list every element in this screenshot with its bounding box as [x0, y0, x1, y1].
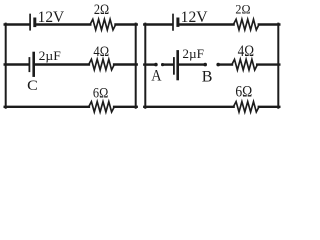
capacitor C 2uF left circuit: right plate	[32, 53, 35, 76]
capacitor 2uF right circuit: left plate	[173, 58, 175, 74]
battery 12V left circuit: long plate	[29, 15, 31, 30]
wire: left circuit top, battery to 2ohm resistor	[36, 23, 90, 25]
battery 12V left circuit: short thick plate	[33, 19, 36, 26]
resistor R 2ohm (left circuit top) zigzag	[90, 19, 116, 30]
wire: left circuit top wire, border to battery	[5, 23, 30, 25]
wire: right circuit, capacitor to node B dot	[179, 63, 205, 65]
battery 12V right circuit: short thick plate	[176, 19, 179, 25]
svg-text:2Ω: 2Ω	[235, 2, 250, 16]
wire: right circuit right border	[277, 24, 279, 108]
capacitor C 2uF left circuit: left plate	[28, 58, 30, 71]
svg-text:A: A	[151, 68, 162, 85]
wire: left circuit middle, capacitor to 4ohm resistor	[35, 63, 89, 65]
svg-text:B: B	[202, 69, 213, 86]
wire: left circuit middle wire, border to capacitor	[5, 63, 29, 65]
svg-text:6Ω: 6Ω	[93, 85, 109, 101]
battery 12V right circuit: long plate	[172, 15, 174, 30]
wire: right circuit top, battery to 2ohm resistor	[179, 23, 234, 25]
svg-text:12V: 12V	[181, 9, 209, 26]
node A terminal dot	[154, 63, 158, 67]
resistor R 6ohm (right circuit bottom) zigzag	[233, 102, 259, 112]
svg-text:2µF: 2µF	[39, 49, 61, 63]
wire: left circuit bottom, left border to 6ohm resistor	[5, 106, 89, 108]
node B terminal dot	[203, 63, 207, 67]
wire: left circuit left border	[5, 24, 7, 108]
svg-text:4Ω: 4Ω	[93, 44, 109, 60]
svg-text:4Ω: 4Ω	[238, 43, 254, 60]
capacitor 2uF right circuit: right plate	[176, 51, 179, 79]
resistor R 6ohm (left circuit bottom) zigzag	[89, 102, 115, 112]
node dot right of A gap	[161, 63, 164, 66]
wire: right circuit middle, border to node A dot	[144, 63, 155, 65]
svg-text:6Ω: 6Ω	[235, 83, 252, 100]
resistor R 4ohm (left circuit middle) zigzag	[89, 59, 115, 70]
wire: right circuit top wire, border to battery	[144, 23, 172, 25]
node dot right of B gap	[216, 63, 220, 67]
svg-text:12V: 12V	[38, 9, 65, 26]
svg-text:2Ω: 2Ω	[94, 2, 109, 18]
wire: left circuit top, 2ohm resistor to right border	[116, 23, 137, 25]
resistor R 2ohm (right circuit top) zigzag	[233, 19, 259, 30]
resistor R 4ohm (right circuit middle) zigzag	[232, 59, 258, 70]
wire: right circuit top, 2ohm resistor to right border	[259, 23, 280, 25]
wire: right circuit bottom, left border to 6ohm resistor	[144, 106, 233, 108]
wire: left circuit middle, 4ohm resistor to right border	[114, 63, 137, 65]
wire: right circuit middle, 4ohm resistor to right border	[257, 63, 279, 65]
wire: right circuit left border	[144, 24, 146, 108]
wire: left circuit right border	[135, 24, 137, 108]
wire: right circuit middle, node dot to 4ohm resistor	[218, 63, 232, 65]
wire: right circuit, dot to capacitor	[163, 63, 173, 65]
wire: right circuit bottom, 6ohm resistor to right border	[259, 106, 280, 108]
svg-text:C: C	[27, 77, 38, 94]
svg-text:2µF: 2µF	[182, 46, 204, 61]
wire: left circuit bottom, 6ohm resistor to right border	[114, 106, 137, 108]
